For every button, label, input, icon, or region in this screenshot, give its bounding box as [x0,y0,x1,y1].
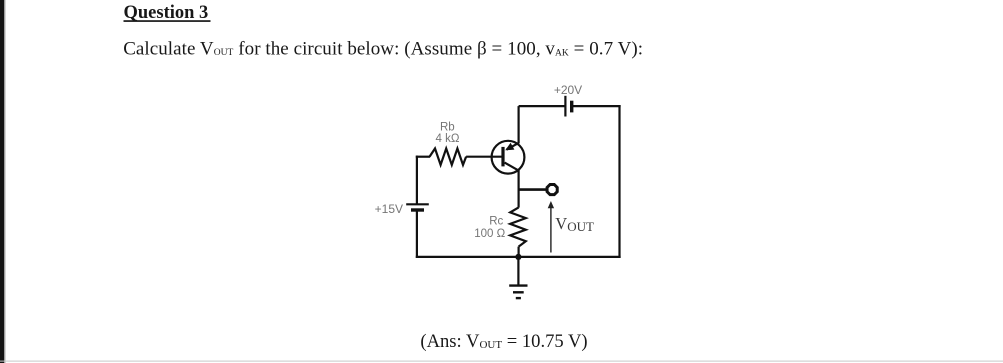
page left black edge bar [0,0,4,363]
battery V2 +15V long plate [406,203,429,205]
battery V1 +20V long plate [564,96,566,117]
transistor Q1 circle [492,141,525,174]
wire: left rail upper [416,156,418,205]
svg-text:+20V: +20V [554,83,582,97]
wire: left rail lower [416,210,418,258]
wire: base wire from left rail to Rb [416,156,430,158]
wire: top rail left segment [519,105,566,107]
wire: Rb to base [466,156,502,158]
battery V2 +15V short plate [411,208,424,211]
svg-text:VOUT: VOUT [555,214,594,234]
battery V1 +20V short plate [570,101,573,113]
svg-text:+15V: +15V [375,202,403,216]
svg-text:(Ans: VOUT = 10.75 V): (Ans: VOUT = 10.75 V) [420,331,587,352]
resistor Rc zigzag [510,207,526,246]
svg-text:Calculate VOUT for the circuit: Calculate VOUT for the circuit below: (A… [123,39,643,60]
ground symbol [509,286,527,299]
VOUT arrowhead [548,201,554,208]
VOUT arrow line [550,207,552,253]
wire: Rc to bottom rail [517,247,519,257]
transistor Q1 base bar [501,147,504,167]
resistor Rb zigzag [430,149,467,165]
wire: ground stem [517,257,519,286]
node: output terminal octagon [547,184,557,194]
heading underline [124,20,211,22]
transistor Q1 collector diagonal [505,163,519,171]
transistor Q1 emitter arrowhead [505,143,514,151]
wire: output tap horizontal [519,188,546,191]
svg-text:Rc: Rc [489,216,503,228]
wire: right rail [618,105,620,258]
junction dot at Rc bottom [515,254,521,260]
svg-text:4 kΩ: 4 kΩ [436,133,460,145]
wire: collector vertical to Rc [517,170,519,208]
wire: bottom rail [416,256,621,258]
wire: top rail right segment [572,105,621,107]
transistor Q1 emitter diagonal [507,143,519,150]
wire: emitter vertical from top rail [517,106,519,143]
svg-text:100 Ω: 100 Ω [474,228,505,240]
svg-text:Question 3: Question 3 [124,3,209,23]
page bottom faint edge line [0,361,1003,362]
